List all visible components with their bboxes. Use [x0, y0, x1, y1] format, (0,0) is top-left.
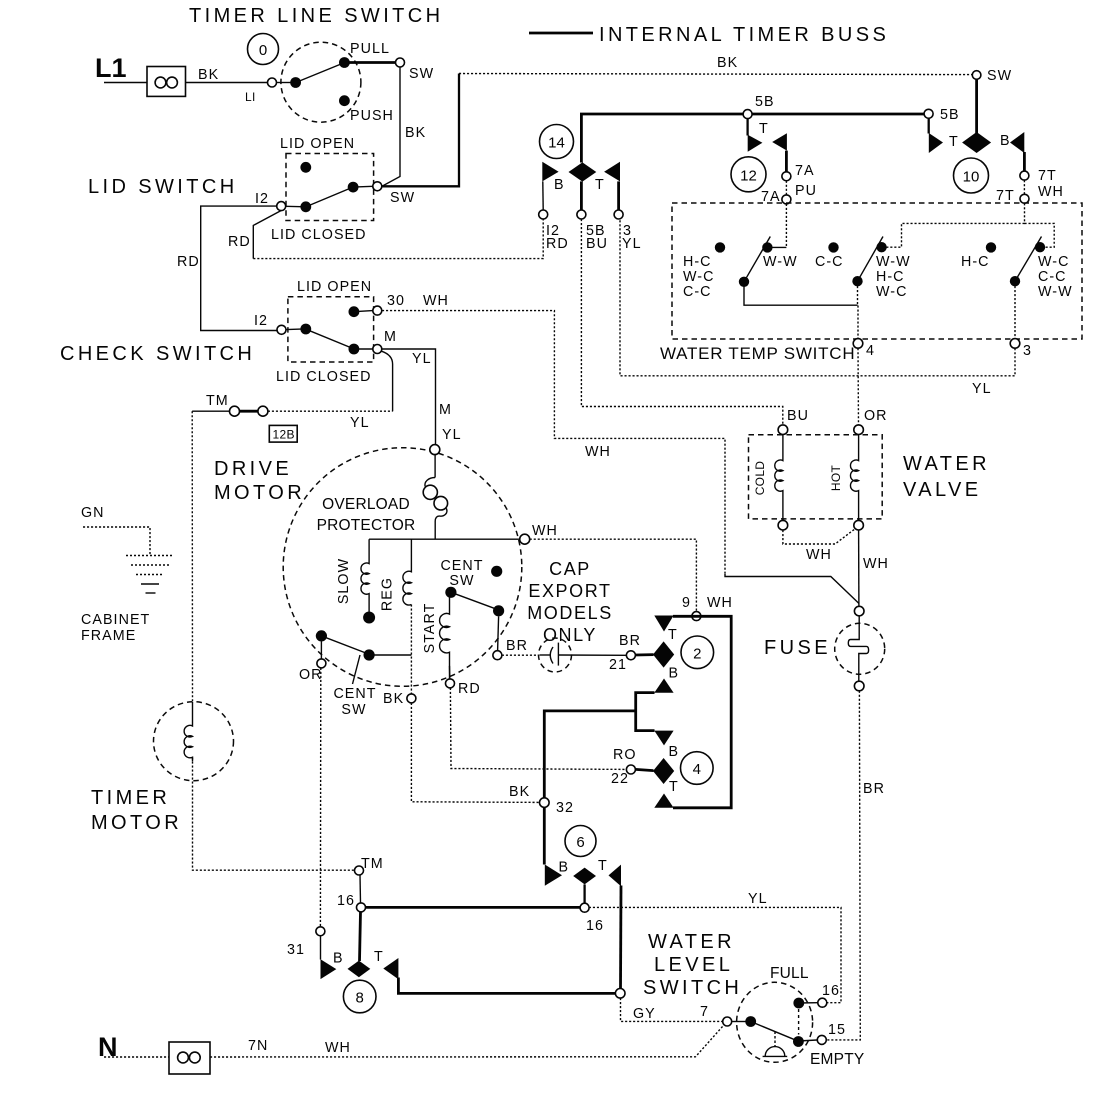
svg-text:TM: TM — [361, 856, 384, 872]
contact 8 cam diamond — [348, 961, 371, 978]
svg-text:W-W: W-W — [763, 254, 798, 270]
svg-text:W-W: W-W — [876, 254, 911, 270]
wire WH branch right — [1025, 223, 1055, 247]
terminal L1 of timer line switch — [268, 78, 277, 87]
svg-text:GY: GY — [633, 1006, 656, 1022]
winding SLOW end dot — [363, 612, 375, 624]
svg-text:WH: WH — [423, 293, 449, 309]
wire TM run right segment — [268, 410, 393, 412]
winding SLOW — [361, 539, 369, 611]
wire node 9 around contact block — [673, 616, 731, 808]
contact 6 cam diamond — [573, 868, 596, 885]
wire WH into fuse — [725, 574, 859, 604]
svg-text:BU: BU — [787, 408, 809, 424]
circled 4 timer cam number — [681, 752, 714, 785]
node 9 terminal — [692, 612, 701, 621]
svg-text:EXPORT: EXPORT — [528, 581, 611, 601]
winding START — [440, 598, 450, 679]
contact 8 right triangle T — [383, 958, 398, 979]
svg-text:OR: OR — [299, 667, 323, 683]
svg-text:0: 0 — [259, 42, 267, 59]
svg-text:B: B — [333, 951, 344, 967]
svg-text:WH: WH — [863, 556, 889, 572]
svg-text:PROTECTOR: PROTECTOR — [317, 517, 416, 534]
svg-text:7A: 7A — [795, 163, 815, 179]
svg-text:5B: 5B — [755, 94, 775, 110]
terminal 16 FULL — [818, 998, 827, 1007]
contact 6 left triangle B — [545, 865, 562, 886]
svg-text:TIMER: TIMER — [91, 787, 170, 809]
svg-text:START: START — [422, 603, 438, 654]
svg-text:31: 31 — [287, 942, 305, 958]
svg-text:L1: L1 — [95, 53, 127, 83]
water level switch arm — [748, 1020, 801, 1042]
svg-text:M: M — [384, 329, 397, 345]
svg-text:7T: 7T — [1038, 168, 1057, 184]
wire pivot to OR terminal — [320, 642, 322, 659]
terminal 30 — [373, 306, 382, 315]
arm 1 contact dot — [762, 242, 772, 252]
wire M to motor YL — [382, 349, 436, 445]
terminal 5B node — [924, 109, 933, 118]
svg-text:WH: WH — [707, 595, 733, 611]
wire contact 1 to PU lead — [767, 246, 786, 248]
cent sw left free dot — [316, 630, 327, 641]
terminal BK of drive motor — [407, 694, 416, 703]
lid switch arm — [303, 186, 357, 208]
terminal 22 — [626, 765, 635, 774]
temp switch arm 2 — [858, 237, 884, 282]
cent sw left contact dot — [364, 649, 375, 660]
wire RD run to terminal I2 of contact 14 — [253, 219, 543, 259]
lead 22 to contact 4 — [635, 769, 653, 770]
svg-text:SWITCH: SWITCH — [643, 977, 742, 999]
svg-text:MODELS: MODELS — [527, 603, 613, 623]
wire M branch down to TM run — [382, 351, 393, 411]
overload protector loop 2 — [434, 496, 448, 510]
svg-text:CHECK SWITCH: CHECK SWITCH — [60, 343, 255, 365]
wire BK motor to junction 32 — [411, 703, 539, 803]
terminal 3 YL — [614, 210, 623, 219]
svg-text:SW: SW — [341, 702, 366, 718]
svg-text:OVERLOAD: OVERLOAD — [322, 496, 410, 513]
water level switch dashed body — [737, 982, 813, 1062]
svg-text:WATER: WATER — [648, 931, 735, 953]
svg-text:21: 21 — [609, 657, 627, 673]
wire L1 lead — [104, 82, 147, 84]
svg-text:B: B — [1000, 133, 1011, 149]
svg-text:LID CLOSED: LID CLOSED — [276, 369, 372, 385]
arm 1 pivot dot — [739, 277, 749, 287]
svg-text:WATER TEMP SWITCH: WATER TEMP SWITCH — [660, 344, 855, 363]
terminal WH on box edge — [1020, 194, 1029, 203]
svg-text:22: 22 — [611, 771, 629, 787]
wire contact to SW — [353, 185, 373, 188]
contact 8 left triangle B — [321, 959, 337, 979]
svg-text:SW: SW — [409, 66, 434, 82]
terminal M of check switch — [373, 345, 382, 354]
svg-text:14: 14 — [548, 135, 565, 152]
contact 10 right triangle B — [1010, 132, 1024, 153]
contact 2 bottom triangle B — [654, 679, 673, 693]
wire junction 16 down to contact 8 — [360, 912, 361, 961]
lid switch dashed body — [286, 154, 374, 221]
wire FULL dot to terminal 16 — [799, 1002, 818, 1004]
lead cam to terminal 5B — [580, 181, 583, 210]
svg-text:6: 6 — [576, 834, 584, 851]
fuse dashed body — [835, 623, 885, 674]
svg-text:C-C: C-C — [683, 284, 712, 300]
timer line switch S1 dashed body — [281, 42, 361, 122]
wire GN to cabinet frame ground — [83, 527, 150, 555]
lead 5B down to triangle — [928, 118, 930, 133]
pendulum dome — [765, 1047, 785, 1057]
water level pivot dot — [745, 1016, 756, 1027]
lead 5B junction down — [746, 119, 748, 136]
svg-text:LEVEL: LEVEL — [654, 954, 733, 976]
svg-text:VALVE: VALVE — [903, 479, 982, 501]
svg-text:H-C: H-C — [683, 254, 712, 270]
contact 14 left triangle B — [542, 162, 558, 182]
svg-text:H-C: H-C — [961, 254, 990, 270]
circled 8 timer cam number — [343, 980, 376, 1013]
svg-text:WATER: WATER — [903, 453, 990, 475]
wire valve commons WH — [783, 529, 855, 544]
wire to BR terminal — [498, 616, 499, 650]
svg-text:BR: BR — [506, 638, 528, 654]
contact 14 cam diamond — [569, 162, 597, 181]
svg-text:CAP: CAP — [549, 559, 591, 579]
terminal 3 — [1010, 339, 1020, 349]
wire dot to terminal M — [354, 348, 373, 350]
svg-text:CENT: CENT — [333, 686, 376, 702]
svg-text:YL: YL — [412, 351, 432, 367]
svg-text:WH: WH — [325, 1040, 351, 1056]
contact 10 left triangle T — [929, 133, 943, 153]
capacitor dashed body — [539, 638, 572, 672]
svg-text:PULL: PULL — [350, 41, 390, 57]
svg-text:REG: REG — [380, 577, 396, 611]
wire PU into switch — [785, 204, 787, 248]
svg-text:LI: LI — [245, 90, 256, 104]
svg-text:C-C: C-C — [815, 254, 844, 270]
wire pivot 4 to terminal 3 — [1014, 286, 1016, 339]
terminal YL of drive motor — [430, 445, 440, 455]
wire stub I2 to pivot — [286, 205, 301, 207]
wire pivot 1 down and right — [744, 286, 858, 305]
wire terminal 4 to OR valve — [857, 348, 860, 425]
svg-text:SW: SW — [987, 68, 1012, 84]
svg-text:HOT: HOT — [829, 465, 843, 492]
arm 2 pivot dot — [852, 276, 862, 286]
wire BK from plug to timer line switch — [186, 82, 268, 84]
svg-text:RD: RD — [228, 234, 251, 250]
wire YL contact 6 to water level switch — [589, 907, 841, 1002]
cent sw contact dot — [493, 605, 504, 616]
cent sw pivot dot — [445, 587, 456, 598]
wire stub terminal to dot — [277, 82, 292, 84]
arm 4 pivot dot — [1010, 276, 1020, 286]
wire RD lid I2 to check I2 — [201, 206, 277, 330]
svg-text:BK: BK — [405, 125, 426, 141]
wire N lead — [104, 1056, 169, 1058]
svg-text:2: 2 — [693, 645, 701, 662]
terminal bottom of COLD — [778, 520, 788, 530]
terminal bottom of HOT — [854, 520, 864, 530]
terminal 31 — [316, 927, 325, 936]
junction terminal water level — [615, 989, 625, 999]
svg-text:LID SWITCH: LID SWITCH — [88, 176, 238, 198]
solenoid COLD — [775, 434, 783, 520]
lid open contact dot — [349, 306, 360, 317]
svg-text:TM: TM — [206, 393, 229, 409]
svg-text:YL: YL — [622, 236, 642, 252]
wire REG to BK terminal — [410, 605, 412, 694]
circled 12 timer cam number — [731, 157, 766, 192]
svg-text:PUSH: PUSH — [350, 108, 394, 124]
contact 4 top triangle B — [654, 731, 673, 746]
wire OR motor to terminal 31 — [319, 668, 321, 927]
svg-text:BR: BR — [863, 781, 885, 797]
svg-text:7T: 7T — [996, 188, 1015, 204]
contact 2 top triangle T — [654, 616, 673, 632]
connector L1 plug — [147, 67, 186, 97]
svg-text:8: 8 — [356, 990, 364, 1007]
lid open contact dot — [300, 162, 311, 173]
junction 32 terminal — [540, 798, 550, 808]
free contact dot 3 — [986, 242, 996, 252]
svg-text:YL: YL — [442, 427, 462, 443]
circled 2 timer cam number — [681, 636, 714, 669]
wire RD start lead — [449, 666, 451, 679]
svg-text:9: 9 — [682, 595, 691, 611]
contact 12 right triangle — [772, 133, 787, 150]
terminal fuse bottom — [854, 681, 864, 691]
cent sw arm — [448, 591, 501, 611]
linkage bracket contacts 2-4 — [636, 693, 655, 731]
fuse element — [848, 616, 868, 681]
circled 0 timer cam number — [248, 34, 279, 65]
wire lid switch SW up to BK buss — [382, 74, 460, 187]
svg-text:WH: WH — [532, 523, 558, 539]
legend internal timer buss line — [529, 32, 593, 35]
svg-text:T: T — [668, 627, 678, 643]
terminal fuse top — [854, 606, 864, 616]
contact PULL dot — [339, 57, 350, 68]
connector N plug — [169, 1042, 210, 1074]
svg-text:T: T — [949, 134, 959, 150]
terminal SW of timer line switch — [396, 58, 405, 67]
overload protector exit lead — [435, 508, 447, 539]
svg-text:BR: BR — [619, 633, 641, 649]
wire EMPTY dot to terminal 15 — [798, 1040, 817, 1041]
svg-text:3: 3 — [1023, 343, 1032, 359]
svg-text:WH: WH — [806, 547, 832, 563]
lead B to terminal I2 — [542, 181, 544, 210]
circled 10 timer cam number — [954, 158, 989, 193]
svg-text:16: 16 — [586, 918, 604, 934]
cent sw left arm — [319, 635, 372, 656]
terminal SW node — [972, 71, 981, 80]
terminal OR of drive motor — [317, 659, 326, 668]
svg-text:CABINET: CABINET — [81, 612, 150, 628]
leader line cent sw — [353, 655, 361, 684]
contact FULL dot — [793, 998, 804, 1009]
drive motor dashed body — [283, 448, 522, 687]
svg-text:W-C: W-C — [876, 284, 907, 300]
svg-text:T: T — [374, 949, 384, 965]
svg-text:4: 4 — [693, 761, 701, 778]
svg-text:5B: 5B — [940, 107, 960, 123]
wire WH from 30 to fuse area — [382, 311, 725, 574]
terminal OR of water valve — [854, 425, 864, 435]
svg-text:N: N — [98, 1032, 118, 1062]
check switch arm — [303, 328, 358, 351]
capacitor C1 — [540, 643, 627, 666]
lid switch pivot dot — [300, 201, 311, 212]
solenoid HOT — [850, 434, 858, 520]
svg-text:32: 32 — [556, 800, 574, 816]
svg-text:B: B — [554, 177, 565, 193]
arm 4 contact dot — [1035, 242, 1045, 252]
dashed throw indicator — [798, 1009, 800, 1035]
lead T to terminal 3 — [617, 181, 620, 210]
svg-text:RD: RD — [458, 681, 481, 697]
svg-text:RD: RD — [177, 254, 200, 270]
svg-text:WH: WH — [585, 444, 611, 460]
lead to terminal 7A — [785, 151, 788, 172]
check switch pivot dot — [300, 324, 311, 335]
svg-text:4: 4 — [866, 343, 875, 359]
svg-text:LID OPEN: LID OPEN — [297, 279, 372, 295]
terminal I2 RD — [539, 210, 548, 219]
junction 16 terminal — [357, 903, 366, 912]
svg-text:I2: I2 — [254, 313, 268, 329]
svg-text:YL: YL — [748, 891, 768, 907]
svg-text:SLOW: SLOW — [336, 558, 352, 604]
wire WH neutral run to terminal 7 — [210, 1025, 724, 1057]
wire BU contact 14 to valve — [581, 219, 782, 425]
svg-text:B: B — [559, 860, 570, 876]
wire timer motor top to TM connector — [191, 411, 193, 702]
svg-text:YL: YL — [972, 381, 992, 397]
ground cabinet frame symbol — [126, 556, 174, 594]
contact 10 cam diamond — [962, 132, 991, 153]
overload protector loop 1 — [423, 485, 437, 499]
circled 14 timer cam number — [540, 125, 574, 159]
svg-text:GN: GN — [81, 505, 105, 521]
wire contact to REG line — [369, 654, 411, 656]
wire WH motor to node 9 — [530, 539, 697, 611]
svg-text:RO: RO — [613, 747, 637, 763]
terminal 5B BU — [577, 210, 586, 219]
wire RD lid I2 down to contact 14 RD run — [253, 211, 281, 259]
lid closed contact dot — [349, 344, 360, 355]
terminal I2 of lid switch — [277, 202, 286, 211]
svg-text:16: 16 — [337, 893, 355, 909]
svg-text:BU: BU — [586, 236, 608, 252]
svg-text:CENT: CENT — [440, 558, 483, 574]
svg-text:H-C: H-C — [876, 269, 905, 285]
connector TM inline circles — [230, 406, 240, 416]
terminal 4 — [853, 339, 863, 349]
svg-text:EMPTY: EMPTY — [810, 1051, 864, 1068]
terminal BU of water valve — [778, 425, 788, 435]
contact 2 cam diamond — [653, 641, 674, 667]
circled 6 timer cam number — [565, 826, 596, 857]
wire YL terminal 3 to contact 14 — [620, 219, 1015, 376]
contact PUSH dot — [339, 95, 350, 106]
terminal 15 EMPTY — [817, 1035, 826, 1044]
wire BK down from SW — [382, 67, 400, 186]
svg-text:SW: SW — [449, 573, 474, 589]
check switch dashed body — [288, 297, 374, 362]
wire TM to junction 16 — [359, 875, 362, 903]
wire 7A to switch terminal — [785, 181, 787, 195]
wire BK top run to SW of contact 10 — [459, 74, 972, 75]
svg-text:BK: BK — [383, 691, 404, 707]
terminal I2 of check switch — [277, 325, 286, 334]
wire 7T to switch terminal — [1023, 180, 1025, 194]
wire stub 7 to pivot — [732, 1021, 746, 1023]
terminal TM — [355, 866, 364, 875]
connector TM bar — [240, 410, 259, 413]
svg-text:YL: YL — [350, 415, 370, 431]
wire BR fuse to water level switch — [827, 691, 861, 1040]
svg-text:ONLY: ONLY — [543, 625, 597, 645]
lid closed contact dot — [348, 182, 359, 193]
wire dot to terminal 30 — [354, 311, 373, 312]
wire GY to terminal 7 — [621, 998, 723, 1021]
terminal PU on box edge — [782, 195, 791, 204]
temp switch arm 1 — [744, 237, 770, 282]
wire timer motor TM run — [193, 758, 355, 871]
svg-text:SW: SW — [390, 190, 415, 206]
svg-text:W-C: W-C — [683, 269, 714, 285]
contact EMPTY dot — [793, 1036, 804, 1047]
terminal BR of drive motor — [493, 651, 502, 660]
svg-text:7: 7 — [700, 1004, 709, 1020]
svg-text:BK: BK — [198, 67, 219, 83]
timer motor coil — [184, 702, 192, 761]
svg-text:INTERNAL TIMER BUSS: INTERNAL TIMER BUSS — [599, 24, 889, 46]
lead cam 6 to terminal 16 — [583, 884, 585, 903]
wire BR motor to capacitor — [502, 654, 539, 656]
terminal 16 of contact 6 — [580, 903, 589, 912]
terminal 21 — [626, 651, 635, 660]
wire 31 to contact 8 — [320, 936, 322, 960]
svg-text:FRAME: FRAME — [81, 628, 136, 644]
svg-text:FULL: FULL — [770, 965, 809, 982]
contact 12 left triangle — [748, 135, 763, 152]
free contact dot — [715, 242, 725, 252]
svg-text:LID OPEN: LID OPEN — [280, 136, 355, 152]
contact 4 bottom triangle T — [654, 794, 673, 808]
temp switch arm 4 — [1015, 237, 1042, 282]
wire contact 6 right to junction — [619, 886, 622, 989]
wire stub I2 to pivot — [286, 328, 301, 331]
timer motor dashed body — [154, 702, 234, 781]
wire junction 32 to contact 6 — [543, 807, 546, 864]
svg-text:BK: BK — [717, 55, 738, 71]
svg-text:DRIVE: DRIVE — [214, 458, 292, 480]
wire 5B buss — [581, 114, 924, 163]
wire pivot 2 to terminal 4 — [857, 286, 860, 339]
wire WH valve to fuse — [858, 530, 860, 606]
svg-text:30: 30 — [387, 293, 405, 309]
svg-text:COLD: COLD — [753, 461, 767, 496]
contact 4 cam diamond — [653, 758, 674, 784]
